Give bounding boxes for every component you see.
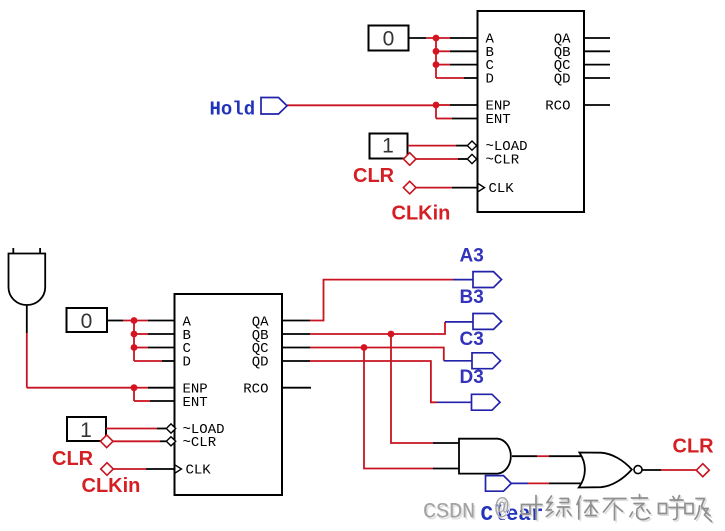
svg-text:QD: QD	[554, 72, 571, 88]
svg-text:CLR: CLR	[353, 165, 395, 187]
svg-text:CLK: CLK	[489, 181, 515, 197]
svg-text:D3: D3	[460, 367, 484, 388]
svg-text:ENT: ENT	[183, 395, 208, 411]
svg-text:1: 1	[382, 134, 394, 157]
svg-text:B3: B3	[460, 287, 484, 308]
svg-text:ENT: ENT	[486, 112, 511, 128]
svg-text:Hold: Hold	[210, 98, 256, 120]
svg-text:C3: C3	[460, 329, 484, 350]
svg-text:~CLR: ~CLR	[183, 435, 217, 451]
svg-text:0: 0	[81, 310, 93, 333]
svg-text:RCO: RCO	[545, 99, 570, 115]
svg-text:Clear: Clear	[481, 504, 544, 527]
svg-text:~CLR: ~CLR	[486, 153, 520, 169]
svg-text:C: C	[423, 499, 437, 525]
svg-text:RCO: RCO	[243, 382, 268, 398]
svg-text:CLR: CLR	[52, 448, 94, 470]
svg-text:N: N	[462, 499, 476, 525]
svg-text:QD: QD	[252, 355, 269, 371]
svg-text:D: D	[449, 499, 463, 525]
svg-text:CLKin: CLKin	[392, 203, 451, 225]
svg-text:0: 0	[383, 27, 395, 50]
svg-text:CLR: CLR	[673, 436, 715, 458]
svg-text:A3: A3	[460, 246, 484, 267]
svg-text:D: D	[486, 72, 494, 88]
svg-text:1: 1	[80, 419, 92, 442]
svg-text:CLK: CLK	[186, 463, 212, 479]
svg-text:S: S	[436, 499, 450, 525]
svg-text:CLKin: CLKin	[82, 475, 141, 497]
svg-text:D: D	[183, 355, 191, 371]
svg-text:@: @	[495, 495, 509, 522]
